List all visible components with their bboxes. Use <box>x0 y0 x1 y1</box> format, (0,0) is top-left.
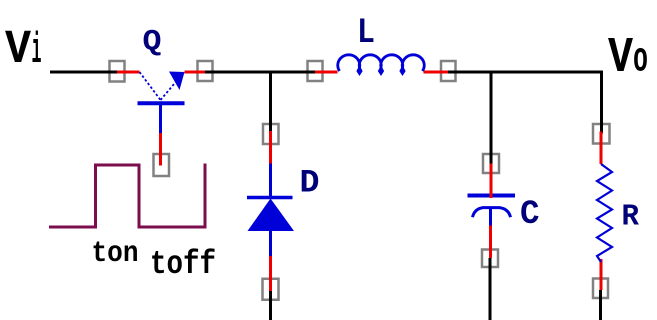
svg-text:ton: ton <box>92 237 139 271</box>
svg-text:V: V <box>5 24 32 77</box>
svg-text:o: o <box>633 36 648 84</box>
svg-text:Q: Q <box>143 26 162 60</box>
svg-text:i: i <box>32 26 42 76</box>
svg-text:R: R <box>622 200 640 235</box>
svg-text:toff: toff <box>150 246 216 284</box>
svg-text:C: C <box>520 196 540 234</box>
svg-text:L: L <box>357 13 375 53</box>
svg-text:D: D <box>300 165 320 202</box>
svg-text:V: V <box>608 30 633 87</box>
